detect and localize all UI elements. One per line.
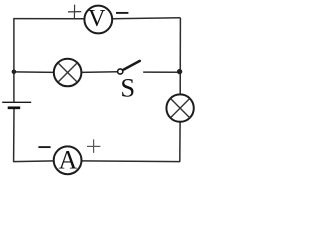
- lamp L2 cross: [171, 99, 190, 118]
- wire left rail lower: [13, 109, 15, 162]
- label + (ammeter positive): [87, 139, 100, 153]
- svg-text:S: S: [120, 72, 135, 102]
- wire bottom-right (ammeter to right rail): [81, 160, 180, 163]
- node right junction: [177, 69, 182, 74]
- wire bottom-left (to ammeter): [13, 160, 54, 163]
- label + (voltmeter positive): [68, 5, 81, 19]
- node left junction: [12, 70, 17, 75]
- wire left rail upper: [13, 18, 15, 102]
- wire top-left (battery + to voltmeter): [14, 18, 85, 20]
- battery BT1 long plate (+): [2, 101, 31, 103]
- switch S blade: [123, 61, 140, 70]
- wire middle branch: lamp L1 to switch: [81, 71, 118, 74]
- voltmeter U1 circle: [84, 6, 112, 34]
- label - (voltmeter negative): [116, 12, 128, 14]
- lamp L2 circle: [166, 94, 193, 121]
- wire middle branch: node to lamp L1: [14, 71, 54, 74]
- switch S contact circle: [118, 69, 123, 74]
- svg-text:V: V: [88, 6, 106, 32]
- battery BT1 short thick plate (-): [8, 106, 21, 109]
- lamp L1 cross: [58, 63, 77, 82]
- label - (ammeter negative): [38, 146, 50, 148]
- lamp L1 circle: [54, 59, 82, 87]
- ammeter U2 circle: [54, 146, 82, 174]
- svg-text:A: A: [59, 146, 78, 175]
- wire top-right (voltmeter to right rail): [112, 18, 180, 19]
- wire right rail upper: [179, 18, 181, 95]
- wire middle branch: switch to right node: [143, 71, 180, 73]
- wire right rail lower: [179, 122, 181, 162]
